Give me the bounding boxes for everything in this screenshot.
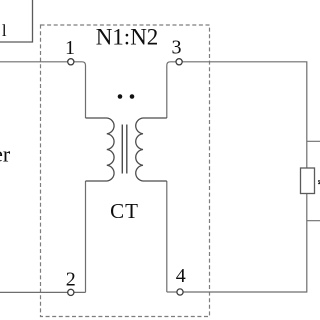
svg-text:2: 2 [66,269,76,291]
svg-text:N1:N2: N1:N2 [96,25,159,50]
svg-text:l: l [2,21,7,40]
svg-text:er: er [0,141,11,166]
svg-text:3: 3 [172,37,182,59]
svg-text:1: 1 [65,37,75,59]
svg-text:CT: CT [110,199,139,223]
svg-text:4: 4 [176,265,186,287]
